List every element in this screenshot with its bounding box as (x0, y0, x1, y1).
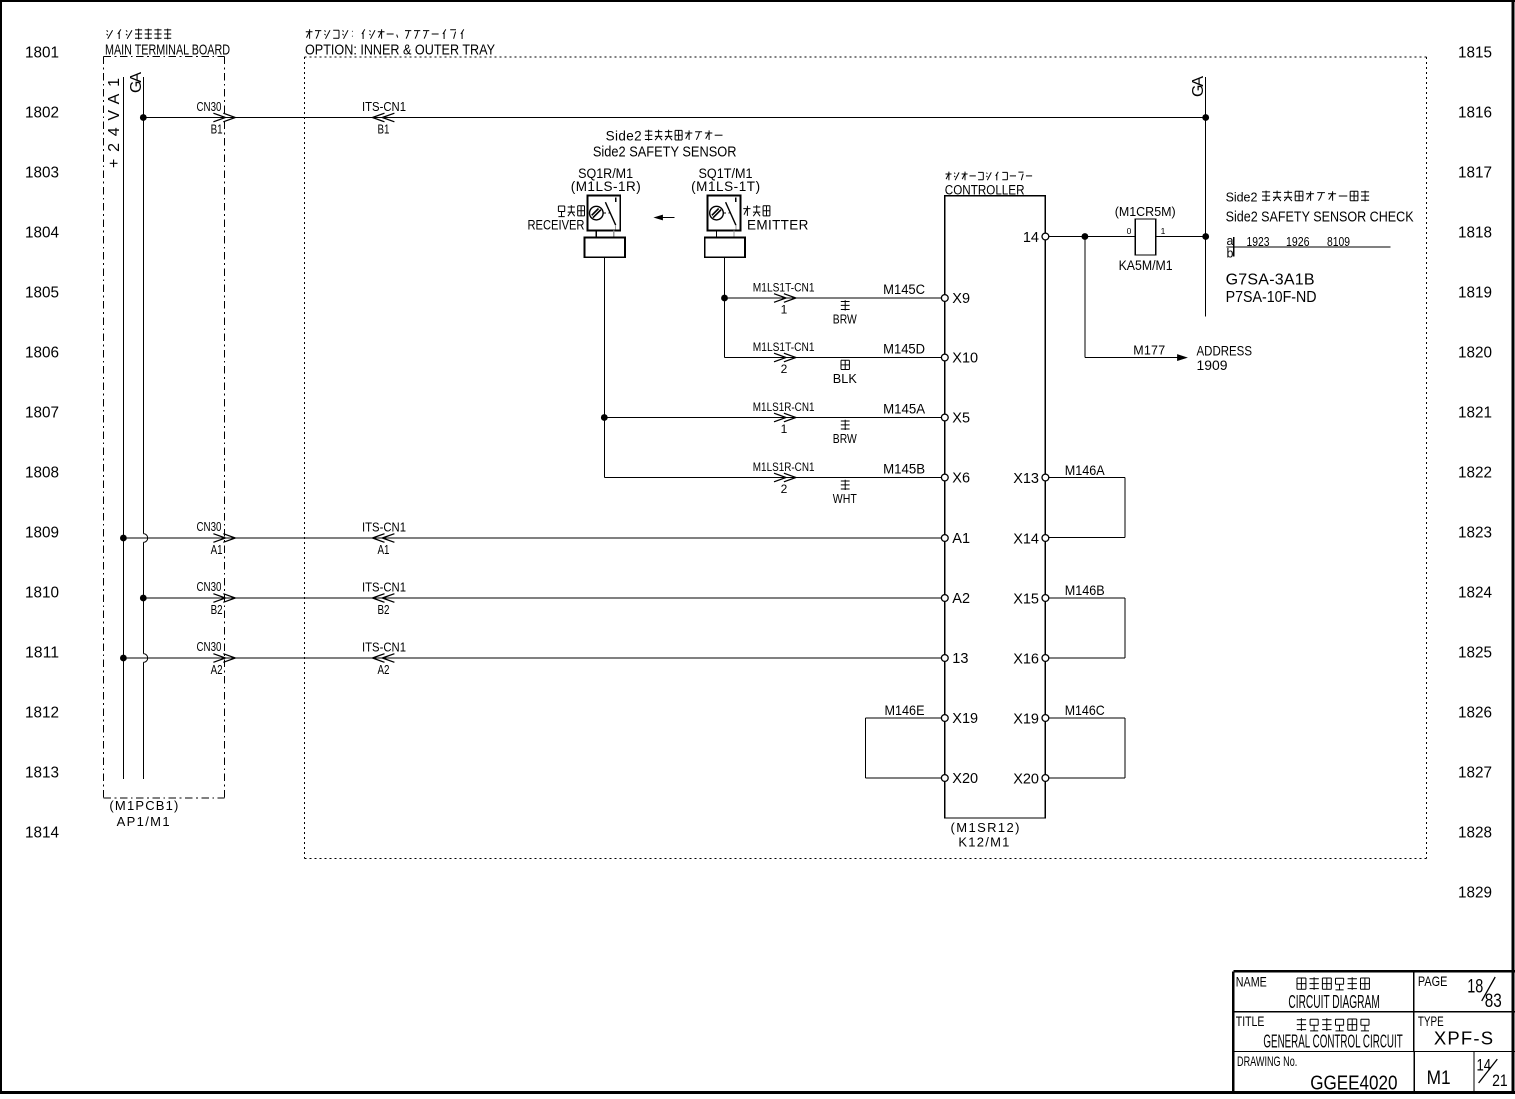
svg-text:1801: 1801 (25, 45, 59, 62)
svg-text:1817: 1817 (1458, 165, 1492, 182)
svg-text:GGEE4020: GGEE4020 (1310, 1072, 1397, 1094)
svg-text:GA: GA (128, 72, 145, 93)
svg-text:1808: 1808 (25, 465, 59, 482)
svg-text:A1: A1 (211, 542, 223, 557)
svg-text:GENERAL CONTROL CIRCUIT: GENERAL CONTROL CIRCUIT (1263, 1031, 1402, 1052)
svg-text:8109: 8109 (1327, 234, 1350, 249)
svg-text:MAIN TERMINAL BOARD: MAIN TERMINAL BOARD (105, 42, 230, 59)
svg-text:1: 1 (1161, 226, 1166, 236)
svg-text:1923: 1923 (1247, 234, 1270, 249)
svg-text:B1: B1 (378, 121, 390, 136)
svg-text:0: 0 (1127, 226, 1132, 236)
svg-text:1821: 1821 (1458, 405, 1492, 422)
svg-text:AP1/M1: AP1/M1 (117, 814, 170, 829)
svg-text:1926: 1926 (1286, 234, 1310, 249)
svg-text:M146E: M146E (885, 702, 925, 718)
svg-text:1818: 1818 (1458, 225, 1492, 242)
svg-text:CN30: CN30 (197, 99, 222, 114)
svg-text:ITS-CN1: ITS-CN1 (362, 99, 406, 114)
svg-text:A2: A2 (952, 591, 970, 607)
svg-text:Side2 SAFETY SENSOR CHECK: Side2 SAFETY SENSOR CHECK (1226, 209, 1414, 226)
svg-text:13: 13 (952, 651, 968, 667)
svg-text:M145D: M145D (883, 342, 925, 357)
svg-text:M145C: M145C (883, 282, 925, 297)
svg-text:TYPE: TYPE (1418, 1013, 1444, 1029)
svg-text:1826: 1826 (1458, 705, 1492, 722)
svg-text:CN30: CN30 (197, 519, 222, 534)
svg-text:83: 83 (1485, 991, 1502, 1012)
svg-text:ITS-CN1: ITS-CN1 (362, 520, 406, 535)
svg-text:X16: X16 (1013, 652, 1039, 668)
svg-text:1810: 1810 (25, 585, 59, 602)
svg-text:B2: B2 (378, 602, 390, 617)
svg-text:1804: 1804 (25, 225, 59, 242)
svg-text:1803: 1803 (25, 165, 59, 182)
svg-text:A1: A1 (378, 542, 390, 557)
svg-text:P7SA-10F-ND: P7SA-10F-ND (1226, 289, 1317, 306)
svg-text:1822: 1822 (1458, 465, 1492, 482)
svg-text:21: 21 (1492, 1071, 1508, 1090)
svg-text:1: 1 (781, 302, 788, 316)
svg-text:(M1LS-1T): (M1LS-1T) (691, 179, 760, 194)
svg-text:1820: 1820 (1458, 345, 1492, 362)
svg-text:BRW: BRW (833, 312, 858, 327)
svg-text:14: 14 (1023, 230, 1039, 246)
svg-text:X19: X19 (952, 711, 978, 727)
svg-text:M1LS1T-CN1: M1LS1T-CN1 (753, 340, 815, 354)
svg-text:1823: 1823 (1458, 525, 1492, 542)
svg-text:PAGE: PAGE (1418, 973, 1448, 989)
svg-text:M146B: M146B (1065, 582, 1105, 598)
svg-text:2: 2 (781, 482, 788, 496)
svg-text:NAME: NAME (1236, 973, 1267, 989)
svg-text:K12/M1: K12/M1 (958, 835, 1010, 850)
svg-text:A2: A2 (211, 662, 223, 677)
svg-text:Side2 SAFETY SENSOR: Side2 SAFETY SENSOR (593, 145, 737, 161)
svg-text:TITLE: TITLE (1236, 1013, 1265, 1029)
svg-text:XPF-S: XPF-S (1434, 1028, 1493, 1049)
svg-text:CONTROLLER: CONTROLLER (945, 182, 1025, 197)
svg-text:X14: X14 (1013, 532, 1039, 548)
svg-text:M145A: M145A (883, 402, 925, 417)
svg-text:ITS-CN1: ITS-CN1 (362, 580, 406, 595)
svg-text:(M1LS-1R): (M1LS-1R) (571, 179, 641, 194)
svg-text:1811: 1811 (25, 645, 59, 662)
svg-text:BRW: BRW (833, 431, 858, 446)
svg-text:1825: 1825 (1458, 645, 1492, 662)
svg-text:GA: GA (1190, 76, 1207, 97)
svg-text:X9: X9 (952, 291, 970, 307)
svg-text:Side2: Side2 (606, 129, 642, 144)
svg-text:2: 2 (781, 362, 788, 376)
svg-text:M177: M177 (1133, 343, 1165, 357)
svg-text:X15: X15 (1013, 592, 1039, 608)
svg-text:B2: B2 (211, 602, 223, 617)
svg-text:M1LS1T-CN1: M1LS1T-CN1 (753, 281, 815, 295)
svg-text:1819: 1819 (1458, 285, 1492, 302)
svg-text:(M1PCB1): (M1PCB1) (109, 798, 178, 813)
svg-text:OPTION: INNER & OUTER TRAY: OPTION: INNER & OUTER TRAY (305, 42, 495, 59)
svg-text:M1LS1R-CN1: M1LS1R-CN1 (753, 460, 815, 474)
svg-text:A1: A1 (952, 531, 970, 547)
svg-text:BLK: BLK (833, 371, 857, 386)
svg-text:M1LS1R-CN1: M1LS1R-CN1 (753, 400, 815, 414)
svg-text:M146C: M146C (1065, 702, 1105, 718)
svg-text:X13: X13 (1013, 471, 1039, 487)
svg-text:X6: X6 (952, 471, 970, 487)
svg-text:CN30: CN30 (197, 639, 222, 654)
svg-text:RECEIVER: RECEIVER (528, 217, 585, 232)
svg-text:1805: 1805 (25, 285, 59, 302)
svg-text:1: 1 (781, 422, 788, 436)
svg-text:b: b (1227, 247, 1234, 261)
svg-text:CIRCUIT DIAGRAM: CIRCUIT DIAGRAM (1288, 991, 1379, 1012)
svg-text:1909: 1909 (1197, 357, 1228, 373)
svg-text:CN30: CN30 (197, 579, 222, 594)
svg-text:1816: 1816 (1458, 105, 1492, 122)
svg-text:(M1SR12): (M1SR12) (951, 820, 1021, 835)
svg-text:M1: M1 (1427, 1068, 1451, 1089)
svg-text:(M1CR5M): (M1CR5M) (1115, 204, 1176, 219)
svg-text:1809: 1809 (25, 525, 59, 542)
svg-text:1813: 1813 (25, 765, 59, 782)
svg-text:X19: X19 (1013, 712, 1039, 728)
svg-text:Side2: Side2 (1226, 191, 1259, 205)
svg-text:KA5M/M1: KA5M/M1 (1119, 258, 1173, 273)
svg-text:1828: 1828 (1458, 825, 1492, 842)
svg-text:14: 14 (1477, 1056, 1492, 1075)
svg-text:X20: X20 (952, 771, 978, 787)
svg-text:1829: 1829 (1458, 885, 1492, 902)
svg-text:EMITTER: EMITTER (747, 217, 809, 232)
svg-text:1827: 1827 (1458, 765, 1492, 782)
svg-text:M146A: M146A (1065, 462, 1106, 478)
svg-text:WHT: WHT (833, 491, 857, 506)
svg-text:G7SA-3A1B: G7SA-3A1B (1226, 271, 1315, 288)
svg-text:1815: 1815 (1458, 45, 1492, 62)
svg-text:A2: A2 (378, 662, 390, 677)
svg-text:X20: X20 (1013, 772, 1039, 788)
svg-text:1807: 1807 (25, 405, 59, 422)
svg-text:18: 18 (1467, 977, 1483, 998)
svg-text:DRAWING No.: DRAWING No. (1237, 1053, 1297, 1069)
svg-text:1824: 1824 (1458, 585, 1492, 602)
svg-text:1806: 1806 (25, 345, 59, 362)
svg-text:1802: 1802 (25, 105, 59, 122)
svg-text:ITS-CN1: ITS-CN1 (362, 640, 406, 655)
svg-text:1814: 1814 (25, 825, 59, 842)
svg-text:M145B: M145B (883, 462, 925, 477)
svg-text:B1: B1 (211, 121, 223, 136)
svg-text:X5: X5 (952, 411, 970, 427)
svg-text:X10: X10 (952, 351, 978, 367)
svg-text:1812: 1812 (25, 705, 59, 722)
